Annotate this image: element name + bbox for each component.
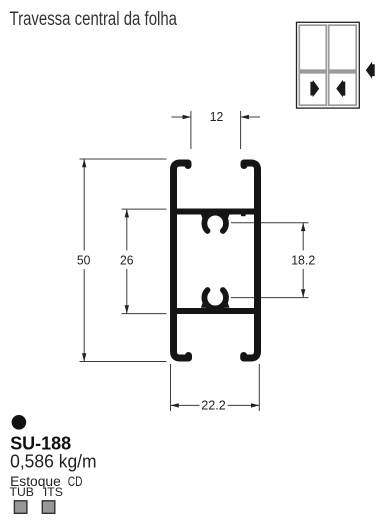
dimension 12	[172, 111, 261, 149]
dimension 50	[80, 159, 167, 362]
svg-text:0,586 kg/m: 0,586 kg/m	[10, 451, 97, 471]
profile left wall with hooks	[174, 163, 189, 358]
svg-text:18.2: 18.2	[291, 252, 315, 267]
svg-text:26: 26	[120, 253, 134, 268]
profile top screw boss	[204, 213, 226, 231]
window icon left sash	[299, 25, 326, 105]
window icon arrow left (bottom-right pane)	[336, 80, 345, 98]
window icon right sash	[329, 25, 357, 105]
profile bottom web	[174, 308, 258, 314]
svg-text:22.2: 22.2	[201, 397, 226, 412]
svg-text:50: 50	[77, 253, 91, 268]
dimension 22.2	[171, 364, 260, 411]
legend dot	[12, 415, 27, 430]
dimension 18.2	[231, 223, 309, 298]
profile bottom screw boss	[204, 290, 226, 308]
svg-text:Travessa central da folha: Travessa central da folha	[10, 9, 178, 30]
dimension 26	[122, 209, 167, 314]
svg-text:CD: CD	[68, 474, 83, 489]
window icon arrow right (bottom-left pane)	[310, 80, 319, 97]
svg-text:12: 12	[210, 109, 224, 124]
profile web nub	[241, 213, 246, 216]
window icon frame	[297, 22, 360, 108]
profile top web	[174, 209, 258, 215]
profile right wall with hooks	[244, 163, 258, 358]
svg-text:ITS: ITS	[44, 485, 63, 499]
TUB stock square	[14, 501, 27, 514]
window icon arrow left (outside right)	[366, 62, 375, 79]
ITS stock square	[42, 501, 55, 514]
svg-text:TUB: TUB	[10, 485, 34, 499]
